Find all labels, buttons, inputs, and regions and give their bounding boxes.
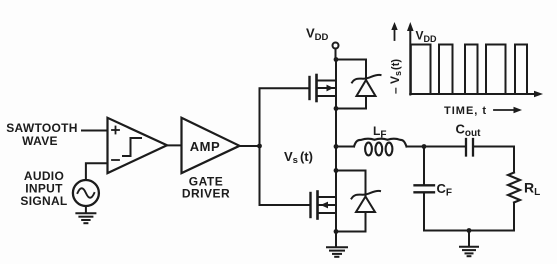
resistor RL (508, 173, 520, 203)
body diode D1 (357, 80, 376, 96)
wire Cout to RL (473, 147, 514, 173)
label AUDIO INPUT SIGNAL (20, 169, 67, 208)
svg-text:Cout: Cout (456, 122, 482, 140)
plot label arrow up (394, 26, 396, 40)
label CF (437, 181, 453, 199)
svg-text:CF: CF (437, 181, 453, 199)
comparator U1 (108, 118, 168, 173)
svg-text:WAVE: WAVE (22, 134, 58, 148)
ground (half bridge) (327, 232, 347, 257)
wire node to Cout (424, 146, 465, 148)
node filter (422, 144, 427, 149)
label SAWTOOTH WAVE (6, 121, 78, 148)
node amp output junction (257, 144, 262, 149)
capacitor CF (415, 184, 435, 186)
plot x axis (410, 93, 538, 95)
gate driver amp U2 (182, 118, 240, 173)
time arrow (494, 109, 517, 111)
wire audio source to comparator - input (86, 163, 108, 180)
wire VDD to drain node (335, 49, 337, 60)
mosfet Q2 (low side) (311, 192, 337, 219)
inductor LF (354, 139, 407, 147)
wire LF to node (407, 146, 425, 148)
svg-text:LF: LF (373, 124, 386, 141)
node ground junction (467, 228, 472, 233)
svg-text:VDD: VDD (416, 29, 438, 45)
wire sawtooth to comparator + input (82, 130, 108, 132)
svg-text:RL: RL (524, 180, 540, 199)
comparator + input symbol (112, 127, 119, 134)
plot label VDD (416, 29, 438, 45)
label Vs(t) (284, 149, 313, 166)
body diode D1 loop (336, 60, 366, 80)
svg-text:AMP: AMP (190, 139, 220, 154)
svg-text:– Vs(t): – Vs(t) (388, 59, 403, 94)
wire RL to bottom bus (513, 203, 515, 231)
wire CF bottom (423, 194, 425, 231)
capacitor Cout (465, 139, 467, 156)
gate bus wire (260, 88, 311, 205)
node Vs (334, 144, 339, 149)
wire Vs node to LF (336, 146, 353, 148)
label TIME, t (444, 105, 487, 117)
body diode D2 loop (336, 171, 366, 197)
label LF (373, 124, 386, 141)
bottom bus wire (424, 230, 514, 232)
body diode D2 (356, 197, 375, 213)
label GATE DRIVER (182, 175, 230, 201)
terminal VDD (333, 43, 339, 49)
wire CF top (423, 147, 425, 185)
half-bridge rail wire (335, 60, 337, 232)
node Q1 source (334, 106, 339, 111)
audio source V1 (73, 180, 99, 206)
node Q2 source (334, 229, 339, 234)
svg-text:VDD: VDD (306, 26, 329, 44)
svg-text:SAWTOOTH: SAWTOOTH (6, 121, 78, 135)
mosfet Q1 (high side) (310, 75, 337, 101)
node Q1 drain (334, 57, 339, 62)
label Cout (456, 122, 482, 140)
wire comparator output to amp (167, 144, 182, 146)
comparator - input symbol (112, 159, 119, 161)
svg-text:TIME, t: TIME, t (444, 105, 487, 117)
wire amp output to gate bus (240, 145, 260, 147)
label VDD (306, 26, 329, 44)
svg-text:Vs(t): Vs(t) (284, 149, 313, 166)
svg-text:SIGNAL: SIGNAL (20, 194, 67, 208)
PWM pulse train (411, 45, 527, 95)
ground (audio source) (76, 206, 95, 223)
svg-text:DRIVER: DRIVER (182, 187, 230, 201)
ground (output filter) (460, 231, 478, 257)
plot y axis (409, 28, 411, 95)
comparator step symbol (123, 138, 141, 156)
label RL (524, 180, 540, 199)
node Q2 drain loop (334, 168, 339, 173)
plot axis label -Vs(t) rotated (388, 59, 403, 94)
